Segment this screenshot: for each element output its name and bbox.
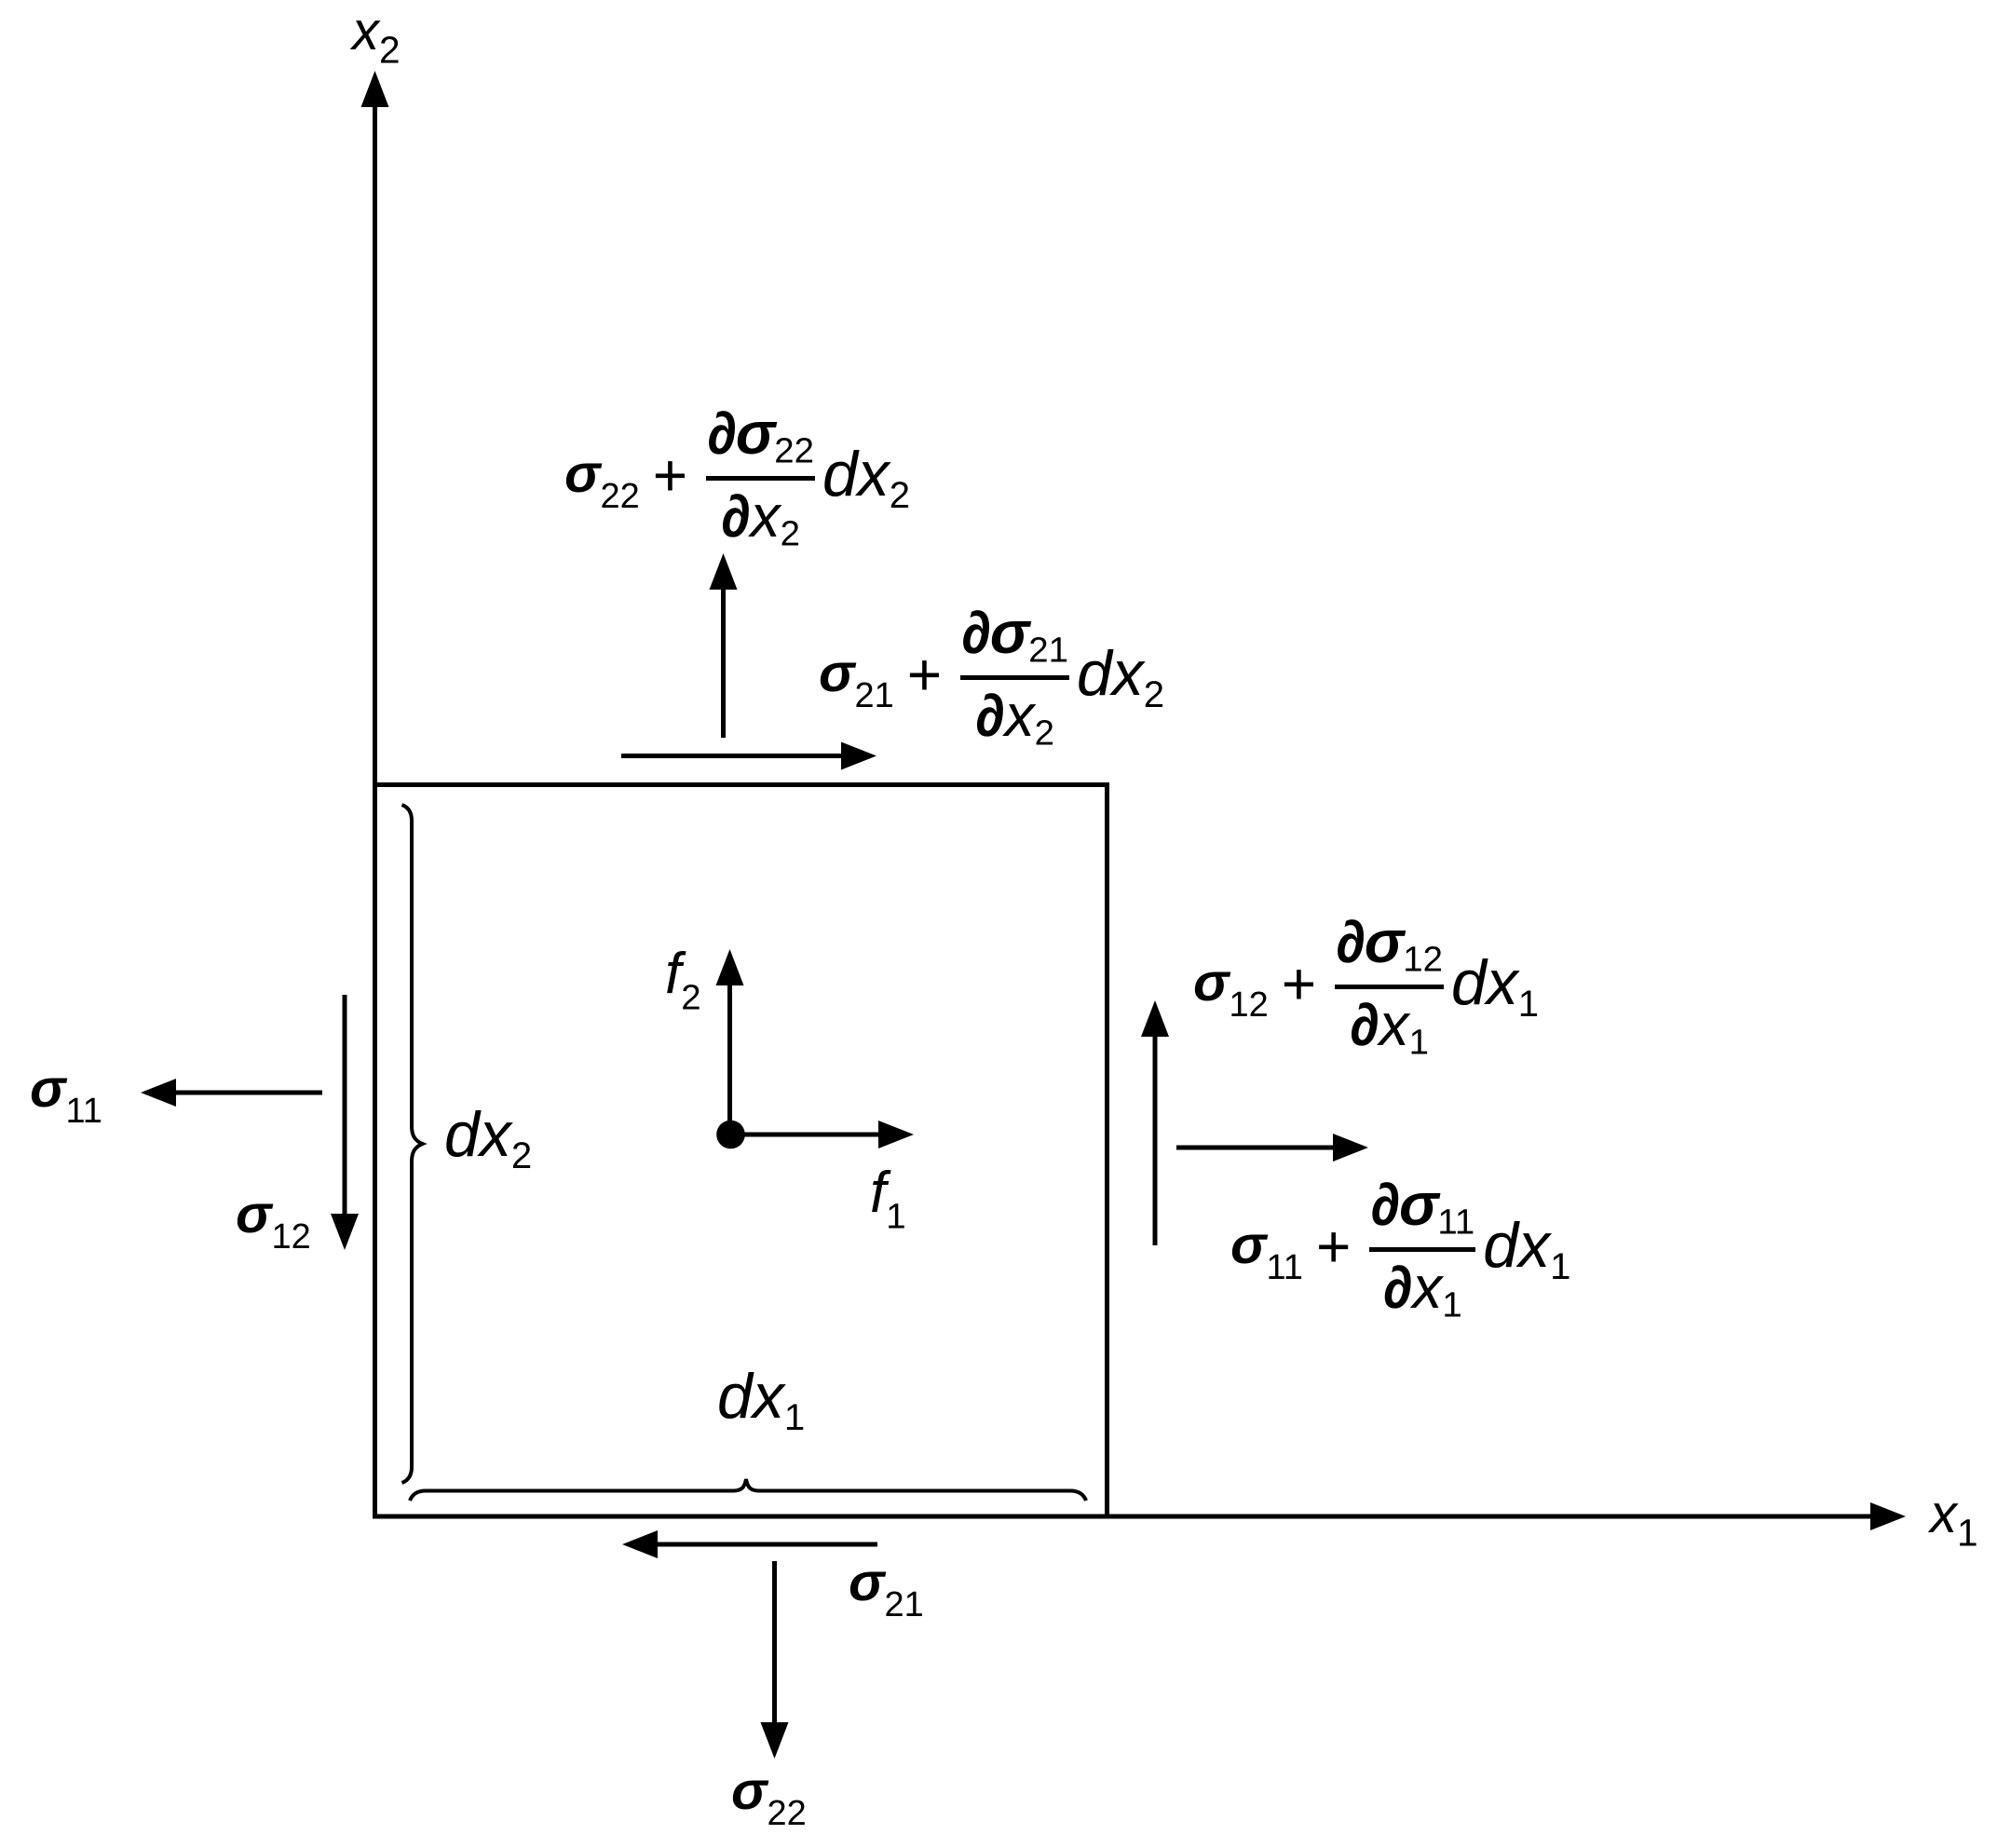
label x1 (horizontal axis)	[1930, 1488, 1978, 1552]
square element	[375, 785, 1107, 1517]
arrow f2 (up from dot)	[727, 983, 732, 1135]
x1 axis arrowhead	[1870, 1502, 1906, 1530]
x1 axis	[375, 1515, 1875, 1519]
arrow sigma11 (left face, left)	[174, 1091, 322, 1095]
formula sigma22 + dsigma22/dx2 * dx2 (top face)	[564, 403, 910, 552]
label sigma21 (bottom face)	[849, 1556, 924, 1623]
body force dot	[716, 1121, 745, 1149]
arrow sigma21 (bottom face, left)	[656, 1542, 877, 1547]
label sigma11 (left face)	[30, 1062, 102, 1129]
formula sigma21 + dsigma21/dx2 * dx2 (top face)	[819, 603, 1164, 752]
label f1 (body force horizontal)	[870, 1164, 906, 1235]
label f2 (body force vertical)	[665, 945, 701, 1016]
formula sigma11 + dsigma11/dx1 * dx1 (right face)	[1230, 1175, 1570, 1324]
formula sigma12 + dsigma12/dx1 * dx1 (right face)	[1193, 912, 1539, 1061]
arrow f1 (right from dot)	[731, 1133, 881, 1137]
label dx1 (brace)	[717, 1365, 805, 1436]
label x2 (vertical axis)	[352, 5, 401, 69]
brace dx2 (left inside square)	[402, 805, 423, 1483]
brace dx1 (bottom inside square)	[410, 1479, 1086, 1501]
arrow sigma22+ (top face, up)	[721, 587, 726, 738]
label dx2 (brace)	[444, 1103, 532, 1175]
x2 axis arrowhead	[361, 71, 389, 107]
arrow sigma12 (left face, down)	[343, 995, 347, 1216]
arrow sigma12+ (right face, up)	[1153, 1034, 1158, 1245]
x2 axis	[373, 104, 377, 1516]
label sigma22 (bottom face)	[731, 1764, 807, 1831]
label sigma12 (left face)	[236, 1188, 311, 1255]
arrow sigma22 (bottom face, down)	[772, 1561, 777, 1725]
arrow sigma21+ (top face, right)	[621, 754, 843, 758]
arrow sigma11+ (right face, right)	[1176, 1146, 1335, 1150]
